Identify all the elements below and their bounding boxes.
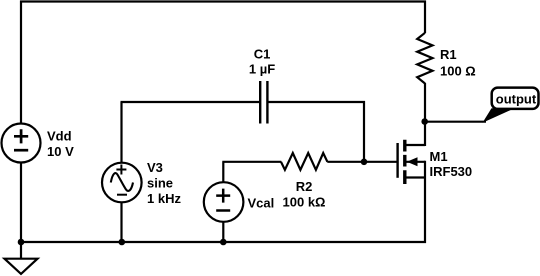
resistor R2: [281, 153, 327, 170]
svg-text:sine: sine: [147, 176, 173, 191]
svg-text:C1: C1: [254, 47, 271, 62]
svg-text:R2: R2: [296, 179, 313, 194]
svg-text:IRF530: IRF530: [430, 164, 473, 179]
wire V3 to C1: [121, 101, 261, 103]
capacitor C1: [260, 81, 267, 124]
svg-text:10 V: 10 V: [47, 144, 74, 159]
node Vcal-ground junction: [220, 239, 227, 246]
wire top rail: [20, 0, 426, 2]
wire Vcal bottom vertical: [222, 222, 224, 243]
node V3-ground junction: [119, 239, 126, 246]
wire R1 bottom vertical: [424, 83, 426, 122]
wire R2 to gate: [327, 161, 397, 163]
wire node vertical: [363, 101, 365, 163]
wire top-right vertical to R1: [424, 1, 426, 34]
transistor M1 gate bar: [396, 143, 398, 178]
wire V3 bottom vertical: [120, 203, 122, 243]
node output junction: [421, 118, 428, 125]
svg-text:100 Ω: 100 Ω: [440, 63, 476, 78]
wire bottom rail: [20, 241, 426, 243]
svg-text:1 µF: 1 µF: [249, 62, 275, 77]
voltage source Vdd: [2, 124, 41, 163]
svg-text:R1: R1: [440, 47, 457, 62]
transistor M1 drain lead: [406, 120, 426, 146]
svg-text:M1: M1: [430, 149, 448, 164]
ground: [5, 242, 38, 274]
svg-text:output: output: [496, 91, 537, 106]
svg-text:1 kHz: 1 kHz: [147, 191, 181, 206]
output callout box: [492, 88, 539, 109]
voltage source Vcal: [204, 182, 244, 222]
svg-text:V3: V3: [147, 160, 163, 175]
wire left vertical upper: [20, 1, 22, 124]
transistor M1 body arrow: [406, 157, 425, 166]
svg-text:Vcal: Vcal: [248, 195, 275, 210]
resistor R1: [417, 33, 432, 84]
voltage source V3 (sine): [102, 163, 142, 203]
transistor M1 channel bars: [403, 140, 406, 184]
wire Vcal top vertical: [222, 162, 281, 183]
wire left vertical lower: [20, 163, 22, 244]
svg-text:100 kΩ: 100 kΩ: [283, 195, 326, 210]
wire C1 to node: [267, 101, 365, 103]
output callout tail: [483, 108, 515, 122]
svg-text:Vdd: Vdd: [47, 129, 72, 144]
wire to output: [425, 121, 486, 123]
transistor M1 source lead: [406, 161, 426, 243]
wire V3 top vertical: [120, 102, 122, 164]
node R2-gate junction: [361, 159, 368, 166]
node ground junction: [18, 239, 25, 246]
